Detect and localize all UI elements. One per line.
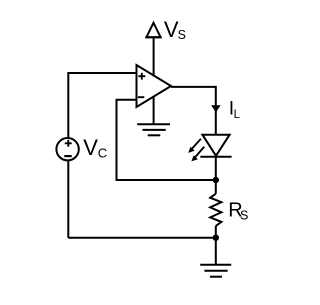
wire left rail bottom (VC- to bottom rail) [67, 161, 69, 238]
wire node B to ground [215, 238, 217, 265]
LED light arrow 1 [188, 139, 201, 153]
wire op-amp ground pin [153, 96, 155, 124]
current IL arrowhead [211, 105, 221, 112]
wire inverting input feedback [117, 100, 216, 180]
svg-text:S: S [240, 209, 248, 223]
wire node A to resistor [215, 180, 217, 194]
voltage source VC [56, 138, 78, 160]
ground (bottom) [200, 265, 231, 277]
ground (op-amp) [137, 124, 170, 135]
svg-text:L: L [234, 109, 241, 121]
wire op-amp output to right rail [171, 87, 216, 135]
svg-text:S: S [178, 28, 186, 42]
svg-text:V: V [83, 135, 98, 160]
op-amp noninverting + marker [138, 73, 145, 80]
LED light arrow 2 [191, 147, 204, 162]
LED cathode bar [200, 156, 231, 158]
LED D1 triangle [202, 135, 229, 156]
supply VS arrow symbol [145, 23, 161, 37]
wire resistor to node B [215, 226, 217, 238]
wire LED cathode to node A [215, 157, 217, 180]
wire bottom rail [68, 237, 216, 239]
VC minus marker [64, 155, 71, 157]
svg-text:C: C [98, 146, 107, 161]
wire VS supply pin [153, 38, 155, 76]
VC plus marker [65, 140, 72, 147]
node A junction dot [213, 177, 219, 183]
resistor RS zigzag [210, 194, 221, 226]
op-amp U1 [137, 65, 172, 107]
wire left rail top (VC+ to op-amp + input) [68, 73, 136, 137]
op-amp inverting - marker [138, 96, 144, 98]
node B junction dot [213, 235, 219, 241]
